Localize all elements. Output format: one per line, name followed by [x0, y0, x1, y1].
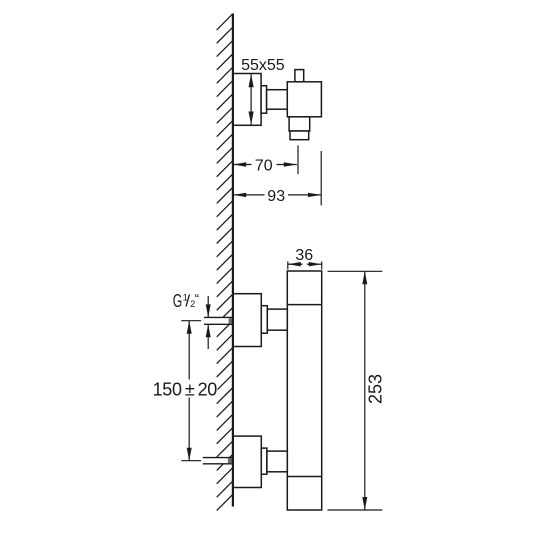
svg-text:150 ± 20: 150 ± 20	[153, 380, 218, 400]
svg-text:55x55: 55x55	[241, 57, 285, 74]
svg-text:G: G	[173, 291, 183, 311]
svg-text:36: 36	[295, 247, 313, 264]
svg-text:70: 70	[255, 158, 273, 175]
svg-text:“: “	[195, 291, 199, 306]
svg-text:253: 253	[366, 374, 386, 404]
svg-text:93: 93	[267, 188, 285, 205]
